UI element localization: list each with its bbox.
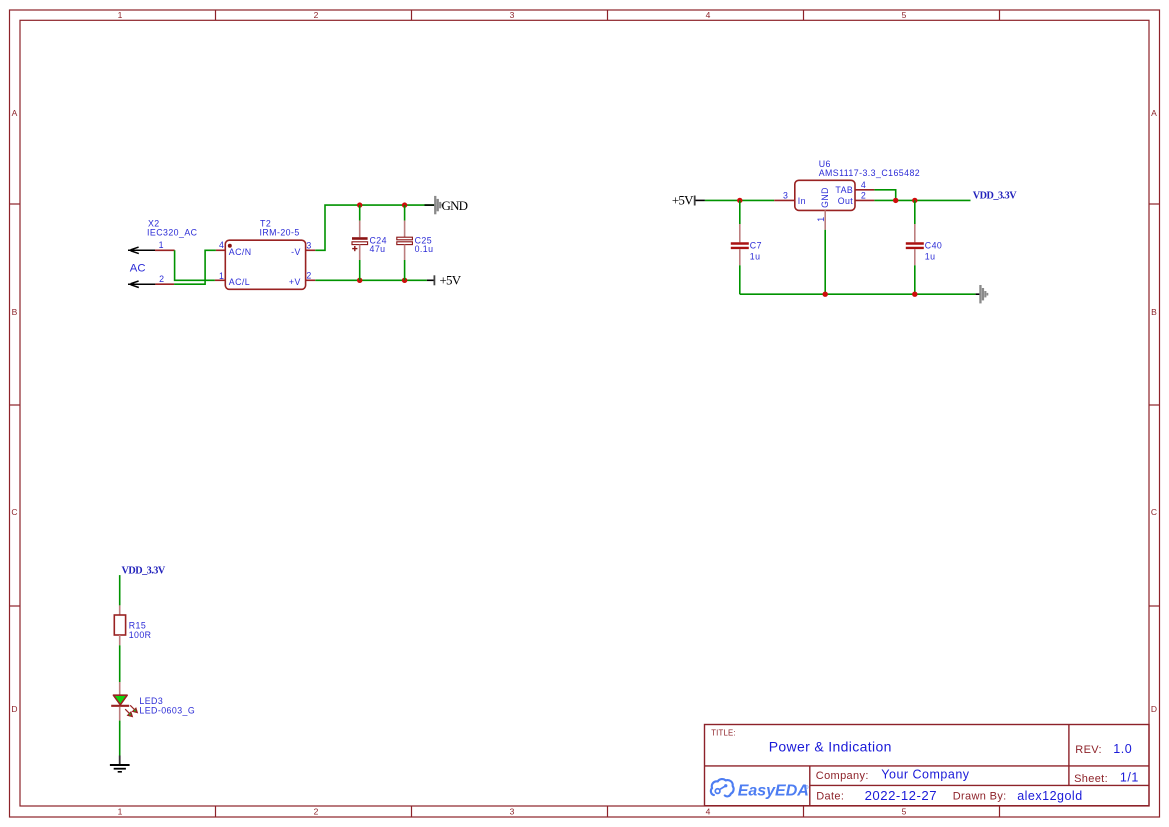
capacitor C40 plate 1 [906, 242, 924, 244]
wire X2.2 to T2.AC/N [174, 250, 216, 284]
U6 pin 2 lead Out [855, 199, 874, 201]
U6 pin 4 lead TAB [855, 189, 874, 191]
capacitor C24 top pin [359, 221, 361, 238]
svg-text:R15: R15 [129, 620, 146, 630]
svg-text:Company:: Company: [816, 770, 869, 782]
svg-text:2: 2 [314, 807, 319, 817]
capacitor C40 top wire stub [914, 200, 916, 224]
capacitor C24 bottom wire stub [359, 260, 361, 280]
svg-text:+V: +V [289, 277, 301, 287]
svg-text:1u: 1u [925, 251, 936, 261]
EasyEDA logo node dot [724, 784, 727, 787]
wire R15 to LED3 [119, 645, 121, 682]
capacitor C24 plate negative [352, 242, 368, 245]
junction C24 top [357, 202, 362, 207]
svg-text:1: 1 [159, 240, 164, 250]
svg-text:3: 3 [783, 191, 788, 201]
connector X2 pin 1 arrow [128, 247, 155, 254]
svg-text:LED-0603_G: LED-0603_G [139, 706, 195, 716]
junction GND rail C40 [912, 292, 917, 297]
wire LED3 to ground [119, 721, 121, 756]
column labels top [118, 10, 907, 20]
junction C40 top [912, 198, 917, 203]
svg-text:4: 4 [706, 10, 711, 20]
capacitor C7 bottom wire stub [739, 265, 741, 294]
GND flag symbol top rail [434, 196, 443, 214]
svg-text:®: ® [805, 784, 809, 791]
svg-text:IRM-20-5: IRM-20-5 [260, 227, 300, 237]
wire U6.GND down [824, 230, 826, 294]
svg-text:AMS1117-3.3_C165482: AMS1117-3.3_C165482 [819, 168, 920, 178]
svg-text:1: 1 [118, 10, 123, 20]
power module T2 body [225, 240, 305, 289]
svg-text:D: D [1151, 704, 1157, 714]
svg-text:LED3: LED3 [139, 696, 163, 706]
capacitor C40 bottom pin [914, 249, 916, 265]
resistor R15 bottom pin [119, 635, 121, 645]
capacitor C40 plate 2 [906, 247, 924, 249]
svg-text:IEC320_AC: IEC320_AC [147, 227, 198, 237]
svg-text:1: 1 [219, 271, 224, 281]
svg-text:Power & Indication: Power & Indication [769, 738, 892, 754]
capacitor C24 top wire stub [359, 205, 361, 221]
svg-text:REV:: REV: [1075, 744, 1102, 756]
EasyEDA logo cloud [711, 779, 734, 796]
svg-text:TAB: TAB [835, 185, 853, 195]
capacitor C24 plus sign [352, 246, 357, 251]
U6 pin 3 lead [774, 199, 795, 201]
GND flag stub top rail [425, 204, 435, 206]
LED3 triangle [113, 695, 127, 705]
junction C24 bottom [357, 278, 362, 283]
power module T2 pin1 dot [228, 244, 232, 248]
+5V netport left stub [696, 199, 705, 201]
+5V netport right stub [427, 279, 434, 281]
capacitor C25 top wire stub [404, 205, 406, 221]
LED3 light arrow 2 [125, 709, 132, 716]
capacitor C7 bottom pin [739, 249, 741, 265]
svg-text:GND: GND [820, 187, 830, 208]
U6 pin 1 lead GND [824, 210, 826, 229]
svg-text:Out: Out [838, 196, 854, 206]
svg-text:C: C [1151, 507, 1157, 517]
EasyEDA logo node line [719, 786, 725, 789]
svg-text:Drawn By:: Drawn By: [953, 791, 1007, 803]
column ticks top [216, 10, 1000, 20]
svg-text:alex12gold: alex12gold [1017, 789, 1082, 803]
capacitor C40 bottom wire stub [914, 265, 916, 294]
capacitor C40 top pin [914, 224, 916, 242]
column ticks bottom [216, 806, 1000, 817]
svg-text:4: 4 [706, 807, 711, 817]
resistor R15 top pin [119, 605, 121, 615]
svg-text:In: In [798, 196, 806, 206]
svg-text:2: 2 [306, 270, 311, 280]
wire X2.1 to T2.AC/L [175, 250, 215, 280]
svg-text:4: 4 [219, 240, 224, 250]
wire Out to VDD_3.3V [874, 199, 970, 201]
capacitor C25 plate 1 [397, 237, 413, 240]
title block outline [705, 725, 1150, 806]
resistor R15 body [114, 615, 125, 635]
capacitor C25 bottom wire stub [404, 260, 406, 280]
svg-text:C40: C40 [925, 240, 942, 250]
regulator U6 body [795, 180, 855, 210]
svg-text:1.0: 1.0 [1113, 742, 1132, 756]
svg-text:100R: 100R [129, 630, 152, 640]
+5V netport left bar [694, 196, 696, 206]
junction C25 top [402, 202, 407, 207]
GND flag stub rail right [976, 293, 981, 295]
connector X2 pin 2 arrow [128, 281, 155, 288]
LED3 light arrow 1 [130, 705, 137, 712]
LED3 cathode bar [111, 705, 129, 707]
svg-text:Your Company: Your Company [881, 768, 969, 782]
svg-text:2: 2 [861, 191, 866, 201]
row ticks right [1149, 204, 1160, 606]
row ticks left [10, 204, 21, 606]
svg-text:TITLE:: TITLE: [711, 728, 736, 737]
svg-text:VDD_3.3V: VDD_3.3V [973, 190, 1017, 201]
svg-text:2: 2 [314, 10, 319, 20]
capacitor C25 top pin [404, 221, 406, 238]
svg-text:EasyEDA: EasyEDA [738, 783, 809, 800]
svg-text:AC/L: AC/L [229, 277, 250, 287]
capacitor C7 plate 2 [731, 247, 749, 249]
svg-text:3: 3 [306, 240, 311, 250]
svg-text:-V: -V [291, 247, 301, 257]
column labels bottom [118, 807, 907, 817]
svg-text:2022-12-27: 2022-12-27 [865, 788, 937, 803]
earth ground stub [119, 756, 121, 765]
capacitor C25 plate 2 [397, 242, 413, 245]
capacitor C7 plate 1 [731, 242, 749, 244]
junction GND rail U6 [823, 292, 828, 297]
svg-text:5: 5 [902, 807, 907, 817]
svg-text:AC: AC [130, 262, 146, 274]
ground rail wire [740, 293, 976, 295]
svg-text:C7: C7 [750, 240, 762, 250]
T2 pin 3 lead [306, 249, 316, 251]
svg-text:B: B [1151, 307, 1157, 317]
earth ground bar 1 [110, 764, 130, 766]
capacitor C24 bottom pin [359, 245, 361, 260]
svg-text:A: A [1151, 108, 1157, 118]
capacitor C24 plate positive [352, 237, 368, 240]
svg-text:3: 3 [510, 10, 515, 20]
wire TAB to Out node [874, 190, 895, 201]
LED3 cathode pin [119, 707, 121, 721]
connector X2 pin 2 lead [155, 283, 174, 285]
svg-text:Sheet:: Sheet: [1074, 773, 1108, 785]
svg-text:AC/N: AC/N [229, 247, 252, 257]
wire +V to +5V rail [315, 279, 427, 281]
svg-text:B: B [12, 307, 18, 317]
T2 pin 4 lead [216, 249, 225, 251]
svg-text:5: 5 [902, 10, 907, 20]
svg-text:1u: 1u [750, 251, 761, 261]
row labels right [1151, 108, 1157, 714]
svg-text:VDD_3.3V: VDD_3.3V [122, 565, 166, 576]
earth ground bar 2 [114, 768, 126, 770]
LED3 anode pin [119, 682, 121, 695]
svg-text:+5V: +5V [440, 272, 462, 287]
svg-text:GND: GND [442, 198, 468, 213]
svg-text:2: 2 [159, 274, 164, 284]
capacitor C7 top wire stub [739, 200, 741, 224]
svg-text:Date:: Date: [816, 791, 844, 803]
capacitor C25 bottom pin [404, 245, 406, 260]
connector X2 pin 1 lead [155, 249, 175, 251]
svg-text:+5V: +5V [672, 193, 694, 208]
svg-text:0.1u: 0.1u [415, 244, 434, 254]
svg-text:C: C [11, 507, 17, 517]
svg-text:1: 1 [816, 216, 826, 221]
wire VDD to R15 [119, 575, 121, 605]
capacitor C7 top pin [739, 224, 741, 242]
svg-text:4: 4 [861, 180, 866, 190]
svg-text:D: D [11, 704, 17, 714]
svg-text:1: 1 [118, 807, 123, 817]
row labels left [11, 108, 17, 714]
EasyEDA logo node circle [715, 789, 720, 794]
wire +5V to U6.In [705, 199, 774, 201]
GND flag symbol rail right [979, 285, 988, 303]
T2 pin 1 lead [215, 279, 225, 281]
svg-text:1/1: 1/1 [1120, 771, 1139, 785]
earth ground bar 3 [118, 771, 122, 773]
svg-text:3: 3 [510, 807, 515, 817]
+5V netport right bar [433, 275, 435, 285]
T2 pin 2 lead [306, 279, 316, 281]
wire -V to GND rail [315, 205, 434, 250]
junction TAB/Out [893, 198, 898, 203]
svg-text:A: A [12, 108, 18, 118]
junction C25 bottom [402, 278, 407, 283]
junction C7 top [737, 198, 742, 203]
svg-text:47u: 47u [370, 244, 386, 254]
